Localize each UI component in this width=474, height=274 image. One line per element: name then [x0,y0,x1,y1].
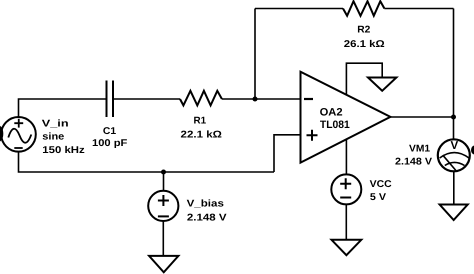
svg-text:R1: R1 [194,116,207,127]
svg-text:2.148 V: 2.148 V [187,213,227,224]
wire op-amp VEE pin loop [346,63,382,95]
wire V_bias to ground [162,221,164,256]
VM1 meter needle [443,155,456,170]
wire top feedback left segment [255,8,343,10]
wire V_in bottom to bias rail [19,151,275,172]
wire C1 to R1 [113,98,180,100]
svg-text:5 V: 5 V [370,192,387,203]
svg-text:sine: sine [42,131,65,142]
V_bias plus sign [158,195,169,206]
voltage source VCC [331,174,361,204]
svg-text:150 kHz: 150 kHz [42,145,85,156]
wire VCC to ground [345,204,347,239]
op-amp OA2 [301,72,391,163]
VM1 meter scale arcs [440,153,469,166]
wire op-amp output [391,116,454,118]
wire feedback right vertical [453,9,455,118]
wire top feedback right segment [384,8,453,10]
ground below VCC [332,240,362,255]
svg-text:VM1: VM1 [409,143,431,154]
voltage source V_in [1,117,36,152]
svg-text:TL081: TL081 [320,119,350,131]
voltmeter VM1 [438,139,470,171]
svg-text:2.148 V: 2.148 V [395,157,433,168]
svg-text:VCC: VCC [370,179,392,190]
wire R1 to op-amp inverting input [222,98,301,100]
V_in minus sign [14,147,22,149]
ground op-amp VEE [368,78,396,91]
V_in sine symbol [8,129,31,143]
svg-text:100 pF: 100 pF [92,138,127,149]
svg-text:V_in: V_in [42,118,69,129]
svg-text:C1: C1 [103,126,117,137]
svg-text:R2: R2 [357,25,371,36]
capacitor C1 [107,81,114,118]
V_bias minus sign [158,215,169,217]
clipped element at right edge [471,145,474,154]
wire VM1 to ground [453,171,455,204]
wire riser to op-amp non-inverting input [274,135,301,172]
svg-text:V_bias: V_bias [187,199,225,210]
ground below V_bias [149,256,178,272]
ground below VM1 [440,205,468,221]
junction node feedback/input [253,97,258,102]
VCC plus sign [340,178,351,189]
clipped element at left edge [0,126,3,142]
wire op-amp VCC pin [345,140,347,175]
svg-text:22.1 kΩ: 22.1 kΩ [181,130,222,141]
resistor R1 [180,91,222,106]
resistor R2 [343,1,384,16]
wire top-left from V_in to C1 [19,99,107,118]
wire V_bias junction to source [163,172,165,191]
svg-text:OA2: OA2 [320,107,343,119]
wire feedback left vertical [254,9,256,100]
wire output to voltmeter [453,117,455,139]
op-amp minus input symbol [304,98,313,100]
svg-text:26.1 kΩ: 26.1 kΩ [344,39,385,50]
junction node output [451,115,456,120]
op-amp plus input symbol [307,130,318,141]
voltage source V_bias [148,191,178,221]
svg-text:V: V [450,140,458,152]
junction node V_bias [161,170,166,175]
V_in plus sign [14,119,23,128]
VCC minus sign [340,197,351,199]
